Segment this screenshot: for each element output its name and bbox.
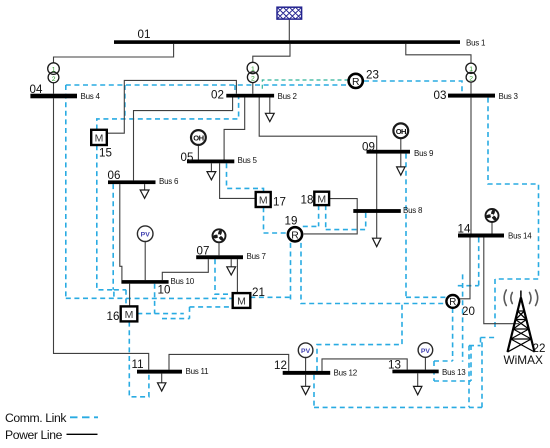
svg-text:M: M	[125, 309, 134, 321]
wire bus1 to T4	[54, 44, 174, 64]
comm bus5 to M17	[227, 163, 264, 192]
svg-text:Bus 12: Bus 12	[334, 369, 358, 378]
svg-text:2: 2	[251, 76, 255, 83]
svg-text:Bus 11: Bus 11	[186, 367, 210, 376]
svg-text:Power Line: Power Line	[5, 428, 63, 442]
comm bottom trunk C	[314, 406, 482, 408]
comm bus3 to wimax	[488, 98, 539, 330]
svg-text:Bus 8: Bus 8	[403, 206, 423, 215]
svg-text:2: 2	[469, 75, 473, 82]
svg-text:R: R	[352, 77, 360, 88]
generator G1 at bus5	[191, 130, 206, 145]
load arrow bus7	[227, 267, 236, 275]
comm tower area cluster	[469, 338, 497, 408]
svg-text:Bus 6: Bus 6	[159, 177, 179, 186]
comm R20 down	[452, 308, 454, 361]
svg-text:1: 1	[469, 66, 473, 73]
comm bus10 drop	[154, 284, 156, 314]
PV unit at bus12	[298, 343, 313, 358]
wire gen to bus9	[400, 138, 402, 150]
svg-text:1: 1	[251, 66, 255, 73]
svg-text:06: 06	[108, 169, 121, 182]
comm horizontal into M16	[66, 297, 126, 299]
svg-text:Bus 9: Bus 9	[414, 149, 434, 158]
wire wind to bus7	[218, 243, 220, 255]
svg-text:Bus 14: Bus 14	[508, 232, 532, 241]
wire pv to bus12	[305, 358, 307, 371]
comm trunk A horizontal	[66, 84, 352, 86]
comm bus12 up to trunk	[317, 304, 402, 371]
meter M16	[121, 306, 138, 321]
wire bus7 to bus10	[162, 259, 208, 280]
wire bus14 to R20	[460, 238, 470, 299]
wire bus7 to M21	[236, 259, 238, 293]
bus 4 bar	[30, 94, 77, 99]
svg-text:20: 20	[462, 305, 475, 318]
wire T3 to bus3	[470, 82, 472, 93]
wire wind to bus14	[491, 223, 493, 234]
generator G2 at bus9	[393, 123, 408, 138]
comm bus13 box	[434, 345, 471, 381]
svg-text:Bus 3: Bus 3	[499, 92, 519, 101]
wind turbine at bus14	[485, 209, 498, 222]
wire bus2 to bus5	[224, 98, 245, 160]
comm bus8 stub	[365, 213, 367, 230]
comm bus9 line to R20	[406, 296, 446, 298]
wire gen to bus5	[197, 145, 199, 160]
bus 11 bar	[137, 370, 182, 374]
wire bus2 to bus9 to bus8	[259, 98, 377, 239]
svg-text:Bus 2: Bus 2	[278, 92, 298, 101]
svg-text:PV: PV	[141, 232, 151, 239]
svg-text:Bus 10: Bus 10	[171, 277, 195, 286]
comm M18 stub h	[303, 225, 319, 227]
comm R19 to R20 trunk	[301, 243, 446, 304]
svg-text:Bus 7: Bus 7	[247, 252, 267, 261]
comm M21 right	[250, 296, 290, 298]
svg-text:02: 02	[211, 89, 224, 102]
svg-text:Comm. Link: Comm. Link	[5, 411, 67, 425]
wire bus10 to M16	[129, 284, 131, 307]
svg-text:M: M	[259, 195, 268, 207]
router R19	[288, 227, 302, 241]
router R23	[349, 74, 363, 88]
comm trunk drop x113 to M16	[113, 184, 126, 306]
svg-text:10: 10	[158, 284, 171, 297]
WiMAX radio waves	[504, 290, 538, 306]
bus 1 bar	[114, 40, 460, 44]
svg-text:13: 13	[388, 359, 401, 372]
svg-text:OH: OH	[396, 127, 406, 136]
load stem bus12	[305, 375, 307, 387]
bus 10 bar	[121, 280, 168, 284]
comm teal link bus2 to R23	[262, 80, 348, 89]
comm trunk A drop to M16	[65, 85, 67, 298]
svg-text:21: 21	[252, 286, 265, 299]
svg-text:2: 2	[52, 76, 56, 83]
load stem bus13	[417, 373, 419, 386]
svg-text:PV: PV	[421, 348, 431, 355]
external grid symbol	[265, 7, 314, 19]
svg-text:09: 09	[362, 141, 375, 154]
svg-text:04: 04	[30, 83, 43, 96]
svg-text:07: 07	[197, 245, 210, 258]
svg-text:Bus 1: Bus 1	[466, 39, 486, 48]
load arrow bus5	[207, 172, 216, 180]
comm M18 stub left	[318, 205, 320, 226]
svg-text:Bus 5: Bus 5	[238, 156, 258, 165]
load stem bus11	[161, 374, 163, 383]
svg-text:16: 16	[107, 310, 120, 323]
bus 12 bar	[283, 371, 331, 375]
PV unit at bus13	[418, 343, 433, 358]
meter M17	[256, 192, 271, 207]
wire bus12 to bus13	[322, 359, 407, 371]
bus 9 bar	[367, 150, 411, 154]
svg-text:11: 11	[132, 358, 144, 371]
svg-text:Bus 13: Bus 13	[442, 368, 466, 377]
comm R19 drop left	[290, 243, 292, 301]
svg-text:19: 19	[285, 215, 298, 228]
svg-text:17: 17	[273, 196, 286, 209]
wire T2 to bus2	[252, 83, 254, 94]
comm link R23 to bus3	[364, 81, 462, 94]
load arrow bus2	[265, 113, 274, 121]
load stem bus9	[400, 154, 402, 167]
comm trunk C up right	[481, 339, 483, 407]
comm link M15 to bus2	[97, 98, 239, 130]
bus 7 bar	[196, 255, 243, 259]
transformer T2 (bus1-bus2)	[247, 62, 258, 82]
svg-text:05: 05	[181, 151, 194, 164]
wire pv to bus13	[424, 357, 426, 369]
wire bus5 to M17	[220, 163, 256, 198]
comm M16 right cluster	[137, 313, 184, 315]
svg-text:18: 18	[301, 194, 314, 207]
svg-text:OH: OH	[193, 134, 203, 143]
comm M18 to bus8 h	[326, 229, 366, 231]
comm bus9 drop	[405, 154, 407, 298]
load stem bus2	[269, 98, 271, 114]
comm R20 vicinity box	[458, 238, 479, 362]
wire bus11 to bus12	[169, 354, 289, 371]
comm cluster h307	[190, 306, 233, 308]
svg-text:23: 23	[366, 69, 379, 82]
bus 14 bar	[458, 234, 504, 238]
wire T4 to bus4	[53, 83, 55, 94]
svg-text:M: M	[237, 296, 246, 308]
comm cluster h318	[162, 318, 190, 320]
comm M18 stub right	[325, 205, 327, 230]
PV unit at bus10	[137, 226, 153, 242]
comm bus7 to M21	[215, 259, 233, 294]
comm bus12 down	[313, 375, 315, 408]
load stem bus6	[144, 184, 146, 190]
comm stub trunk to bus2	[234, 85, 236, 94]
load arrow bus8	[373, 238, 381, 246]
svg-text:PV: PV	[301, 348, 311, 355]
svg-text:15: 15	[99, 147, 112, 160]
router R20	[446, 295, 459, 308]
comm cluster v	[189, 307, 191, 319]
comm M16 to bus11 hook	[129, 322, 149, 397]
wire bus14 to wimax tower	[484, 238, 519, 324]
comm trunk B left	[126, 297, 232, 299]
wire grid to bus1	[288, 19, 290, 40]
load arrow bus11	[158, 383, 166, 391]
comm M17 to R19	[264, 207, 288, 233]
wire M15 to bus2	[107, 80, 237, 133]
wind turbine at bus7	[212, 229, 225, 242]
wire bus1 to T3	[406, 44, 471, 63]
transformer T4 (bus1-bus4)	[48, 63, 60, 83]
load arrow bus12	[301, 386, 309, 394]
svg-text:12: 12	[274, 359, 287, 372]
svg-text:M: M	[317, 194, 326, 206]
wire bus2 to bus6	[134, 98, 233, 181]
meter M15	[91, 130, 107, 145]
bus 5 bar	[187, 160, 234, 164]
load arrow bus6	[140, 190, 149, 198]
wire bus1 to T2	[253, 44, 290, 63]
bus 6 bar	[108, 180, 156, 184]
meter M21	[233, 293, 251, 308]
svg-text:WiMAX: WiMAX	[504, 353, 543, 367]
meter M18	[314, 192, 329, 206]
wire bus4 to bus11	[54, 98, 149, 369]
comm branch M15 line to trunk	[124, 85, 126, 119]
svg-text:M: M	[95, 132, 104, 144]
svg-text:03: 03	[434, 89, 447, 102]
load stem bus7	[230, 259, 232, 267]
comm M15 down	[97, 145, 114, 298]
svg-text:R: R	[449, 297, 456, 308]
bus 8 bar	[353, 209, 401, 213]
svg-text:14: 14	[458, 223, 471, 236]
wire bus6 to bus10	[120, 184, 122, 280]
load stem bus5	[210, 163, 212, 171]
svg-text:Bus 4: Bus 4	[81, 92, 101, 101]
load arrow bus9	[397, 167, 405, 175]
wire bus3 to bus14	[470, 98, 472, 234]
svg-text:R: R	[291, 230, 299, 241]
transformer T3 (bus1-bus3)	[466, 63, 476, 82]
wire pv to bus10	[144, 242, 146, 281]
bus 3 bar	[448, 94, 495, 98]
svg-text:1: 1	[52, 67, 56, 74]
wire M18 to bus8 to R19	[304, 199, 358, 234]
WiMAX tower	[508, 291, 535, 353]
bus 2 bar	[226, 94, 274, 98]
svg-text:01: 01	[138, 28, 151, 41]
bus 13 bar	[392, 370, 438, 374]
load arrow bus13	[414, 386, 422, 394]
